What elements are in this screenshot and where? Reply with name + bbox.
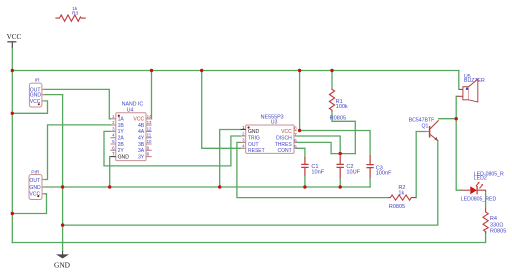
svg-text:OUT: OUT [29,178,40,184]
node bus / 555 VCC [298,69,301,72]
wire 555 pin6 THRES to node [296,142,331,153]
node C2 top / DISCH / THRES / R1 [339,152,342,155]
capacitor C2 10UF [337,156,361,179]
op-amp U3 NE555P3 [241,114,298,154]
pin 7 GND stub [110,156,115,158]
pin GND stub [42,94,45,96]
wire bus drop to R1 top [331,71,333,89]
svg-text:LED0805_RED: LED0805_RED [461,197,497,203]
node bus / R1 [330,69,333,72]
wire NAND GND pin7 down [109,157,111,187]
svg-text:LED2: LED2 [474,175,487,181]
node GND row / C1 [303,185,306,188]
wire 555 GND pin1 down [220,130,241,188]
svg-text:10nF: 10nF [311,170,324,176]
right pin stubs 8-5 [294,131,297,149]
wire bus drop to NAND pin14 [151,71,153,119]
wire top VCC bus horizontal [12,70,459,72]
IR sensor U? [29,77,44,107]
LED D2 LED0805_RED [461,172,504,209]
wire 555 OUT pin3 to R2 [237,142,389,197]
svg-text:R3: R3 [72,10,79,16]
svg-text:3Y: 3Y [138,154,145,160]
wire C3 bottom to GND row [369,178,371,187]
wire bus corner down to buzzer [458,71,461,90]
wire collector junction down to LED [456,119,461,191]
wire IR OUT to NAND 1A [44,89,110,118]
svg-text:1k: 1k [398,190,404,196]
svg-text:VCC: VCC [7,33,22,41]
wire PIR OUT up to NAND 1B [44,125,110,180]
resistor R4 330 ohm [483,208,506,234]
svg-text:100k: 100k [336,104,348,110]
wire bus drop to 555 VCC pin8 [299,71,301,131]
wire 555 pin5 CONT to C1 top [296,148,305,157]
svg-text:Q1: Q1 [422,123,429,129]
wire NAND 1Y to 555 TRIG [104,131,241,166]
emission arrows [476,183,479,186]
svg-text:14: 14 [147,114,152,119]
svg-text:THRES: THRES [275,142,293,148]
anode lead [461,189,470,191]
svg-text:GND: GND [118,154,130,160]
wire R1 bottom jog [332,112,355,154]
svg-text:TRIG: TRIG [248,135,260,141]
capacitor C1 10nF [301,157,325,176]
pin 1 GND stub [241,129,246,131]
svg-text:GND: GND [54,260,71,269]
wire Q1 emitter down to GND row2 [63,141,438,226]
svg-text:100nF: 100nF [376,170,392,176]
svg-text:2Y: 2Y [118,148,125,154]
svg-text:GND: GND [29,185,41,191]
triangle [470,186,477,194]
wire Q1 collector to junction [439,118,457,120]
node GND row / NAND GND [108,185,111,188]
pin OUT stub [42,179,45,181]
node GND row2 / IR GND [61,223,64,226]
svg-text:11: 11 [147,133,152,138]
wire THRES-C2 node segment [331,153,355,155]
wire GND row horizontal [43,186,371,188]
node rail / IR VCC [11,112,14,115]
capacitor C3 100nF [366,155,392,177]
svg-text:CONT: CONT [278,148,292,154]
pin GND stub [42,186,45,188]
transistor Q1 BC547BTF [409,117,439,140]
cathode lead [477,190,486,192]
svg-text:IR: IR [35,77,40,83]
svg-text:330Ω: 330Ω [490,222,504,228]
resistor R3 [55,6,85,21]
svg-text:3A: 3A [138,148,145,154]
svg-text:OUT: OUT [248,142,259,148]
resistor R2 1k [389,185,417,210]
svg-text:R0805: R0805 [330,116,346,122]
svg-text:10: 10 [147,139,152,144]
wire PIR VCC to rail [12,194,46,214]
svg-text:RESET: RESET [248,148,265,154]
wire IR GND vertical long [62,95,64,251]
node GND row / 555 GND [218,185,221,188]
svg-text:DISCH: DISCH [276,135,292,141]
wire 555 pin8 to C3 top [300,131,371,157]
power VCC [7,33,22,48]
svg-text:2B: 2B [118,142,125,148]
left pin stubs 1-6 [110,119,115,151]
wire IR VCC to rail [12,101,47,113]
ground [54,251,71,269]
wire bus drop to 555 RESET pin4 [202,71,241,149]
pin VCC stub [42,100,45,102]
svg-text:R0805: R0805 [490,228,506,234]
node GND row / C2 [339,185,342,188]
wire R2 right to Q1 base [416,132,425,198]
svg-text:1Y: 1Y [118,129,125,135]
wire VCC left vertical rail [11,48,13,243]
pin VCC stub [42,193,45,195]
node Q1 collector / buzzer / LED [455,117,458,120]
pin OUT stub [42,88,45,90]
svg-text:VCC: VCC [281,129,292,135]
wire buzzer bottom pin down [455,96,458,118]
right pin stubs 14-8 [146,119,152,157]
wire C2 bottom to GND row [339,179,341,188]
svg-text:12: 12 [147,126,152,131]
svg-text:4Y: 4Y [138,136,145,142]
svg-text:R0805: R0805 [389,204,405,210]
wire 555 pin7 DISCH to C2 top [296,136,340,154]
node 555 pin8 VCC tap [298,129,301,132]
svg-text:3B: 3B [138,142,145,148]
svg-text:13: 13 [147,120,152,125]
resistor R1 100k [329,89,348,122]
svg-text:4A: 4A [138,129,145,135]
wire C1 bottom to GND row [304,177,306,188]
svg-text:R4: R4 [490,216,497,222]
svg-text:GND: GND [30,93,42,99]
wire IR GND down [44,94,62,96]
svg-text:1B: 1B [118,123,125,129]
svg-text:4B: 4B [138,123,145,129]
node bus / NAND VCC [150,69,153,72]
cathode bar [476,186,478,194]
svg-text:VCC: VCC [133,117,144,123]
wire R4 bottom row to VCC rail [12,232,485,243]
svg-text:2A: 2A [118,136,125,142]
svg-text:10UF: 10UF [346,170,360,176]
node rail / PIR VCC [11,212,14,215]
svg-text:GND: GND [248,129,260,135]
node GND row / IR GND [61,185,64,188]
op-amp U4 NAND IC [110,102,152,161]
node VCC rail / bus [11,69,14,72]
node bus / 555 RESET [200,69,203,72]
PIR sensor [29,170,45,200]
left pin stubs 2-4 [241,136,246,148]
svg-text:1A: 1A [118,117,125,123]
buzzer U5 [457,74,485,102]
